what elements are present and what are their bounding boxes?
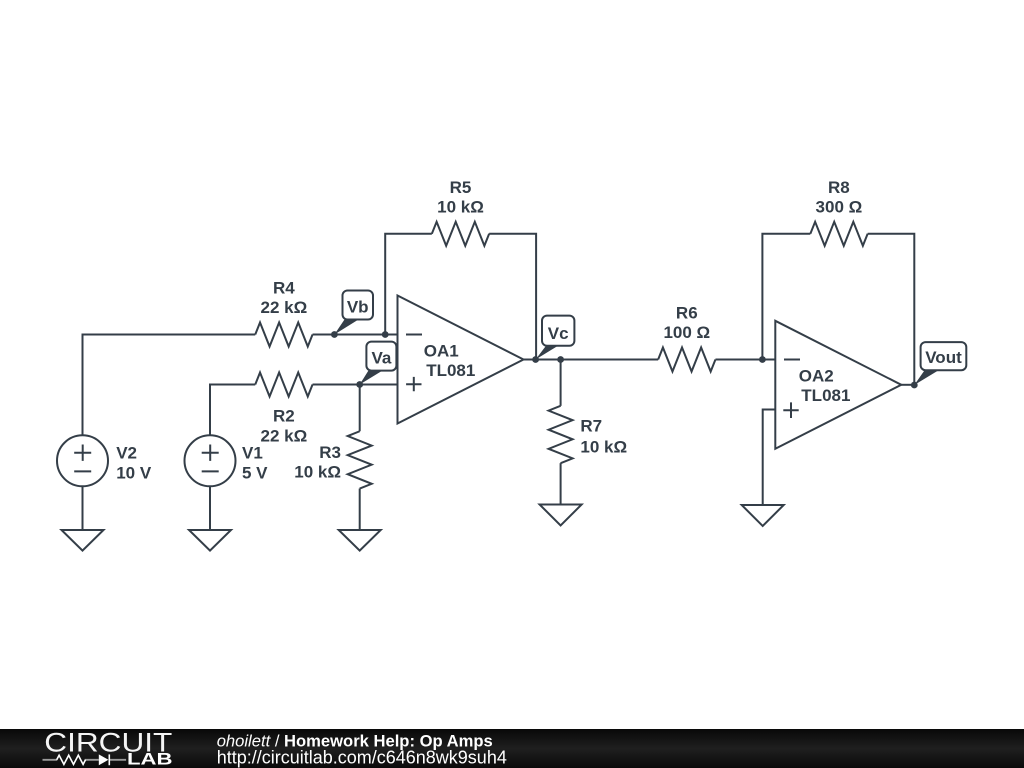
svg-text:22 kΩ: 22 kΩ (261, 427, 308, 446)
op-amp U2 OA2 triangle (775, 321, 901, 449)
svg-text:LAB: LAB (127, 749, 173, 768)
wire OA2 plus input to ground (763, 410, 776, 506)
wire node Vc down to R7 (560, 360, 562, 406)
ground for V1 (189, 530, 231, 551)
OA2 minus input sign (784, 359, 800, 361)
wire OA1 output to R6 (524, 359, 659, 361)
svg-text:V1: V1 (242, 444, 263, 463)
node Vout label box (921, 342, 967, 370)
CircuitLab logo diode triangle (99, 754, 109, 765)
node Vb pointer (334, 320, 358, 335)
svg-text:R4: R4 (273, 279, 295, 298)
ground for OA2 (742, 505, 784, 526)
junction dot at OA2 minus (759, 356, 766, 363)
node Vc junction dot (532, 356, 539, 363)
svg-text:10 kΩ: 10 kΩ (294, 462, 341, 481)
resistor R3 (348, 431, 372, 488)
wire node Va down to R3 (359, 385, 361, 432)
svg-text:Va: Va (371, 349, 391, 368)
node Vb junction dot (331, 331, 338, 338)
svg-text:R2: R2 (273, 407, 295, 426)
svg-text:300 Ω: 300 Ω (816, 198, 863, 217)
resistor R7 (549, 406, 573, 463)
svg-text:10 V: 10 V (116, 463, 152, 482)
svg-text:OA2: OA2 (799, 367, 834, 386)
wire R2 to OA1 plus input (313, 384, 398, 386)
node Va pointer (360, 371, 383, 385)
node Vc label box (542, 316, 574, 346)
ground for R7 (540, 505, 582, 526)
svg-text:Vb: Vb (347, 298, 369, 317)
wire V2 branch to R4 rail (83, 335, 256, 436)
wire R8 down to Vout (868, 234, 915, 385)
OA1 minus input sign (406, 334, 422, 336)
svg-text:10 kΩ: 10 kΩ (580, 438, 627, 457)
wire feedback node Vb up over R5 (385, 234, 432, 335)
wire V1 to ground (209, 486, 211, 530)
svg-text:R8: R8 (828, 178, 850, 197)
svg-text:5 V: 5 V (242, 463, 268, 482)
junction dot at R7 top (557, 356, 564, 363)
ground for R3 (339, 530, 381, 551)
V1 plus sign (202, 445, 219, 461)
svg-text:V2: V2 (116, 444, 137, 463)
resistor R5 (432, 222, 489, 246)
svg-text:R3: R3 (319, 443, 341, 462)
svg-text:TL081: TL081 (801, 386, 850, 405)
svg-text:10 kΩ: 10 kΩ (437, 198, 484, 217)
svg-text:R6: R6 (676, 304, 698, 323)
wire V2 to ground (82, 486, 84, 530)
ground for V2 (62, 530, 104, 551)
node Vc pointer (536, 346, 558, 360)
svg-text:TL081: TL081 (426, 361, 475, 380)
wire OA2 output stub (901, 384, 914, 386)
resistor R2 (255, 373, 312, 397)
wire R4 to OA1 minus input (313, 334, 398, 336)
voltage source V2 (57, 435, 108, 486)
svg-text:Vout: Vout (925, 348, 962, 367)
node Va label box (366, 342, 396, 371)
svg-text:R7: R7 (580, 417, 602, 436)
wire R3 to ground (359, 489, 361, 530)
svg-text:R5: R5 (450, 178, 472, 197)
OA2 plus input sign (783, 402, 798, 418)
resistor R6 (658, 348, 715, 372)
svg-text:Vc: Vc (548, 324, 569, 343)
svg-text:http://circuitlab.com/c646n8wk: http://circuitlab.com/c646n8wk9suh4 (217, 748, 507, 768)
V1 minus sign (202, 470, 219, 472)
CircuitLab logo resistor-diode glyph (43, 754, 127, 765)
voltage source V1 (185, 435, 236, 486)
junction dot on feedback at minus input (382, 331, 389, 338)
wire feedback up over R8 (762, 234, 810, 360)
node Va junction dot (356, 381, 363, 388)
OA1 plus input sign (406, 377, 421, 391)
wire R6 to OA2 minus input (715, 359, 775, 361)
node Vout pointer (914, 370, 938, 385)
svg-text:100 Ω: 100 Ω (663, 323, 710, 342)
svg-text:OA1: OA1 (424, 342, 459, 361)
wire R5 down to node Vc (489, 234, 536, 360)
node Vb label box (343, 291, 374, 320)
svg-text:22 kΩ: 22 kΩ (261, 298, 308, 317)
resistor R4 (255, 323, 312, 347)
op-amp U1 OA1 triangle (398, 296, 524, 424)
V2 plus sign (74, 445, 91, 461)
wire R7 to ground (560, 463, 562, 504)
wire V1 branch to R2 rail (210, 385, 255, 436)
node Vout junction dot (911, 382, 918, 389)
V2 minus sign (74, 470, 91, 472)
resistor R8 (810, 222, 867, 246)
